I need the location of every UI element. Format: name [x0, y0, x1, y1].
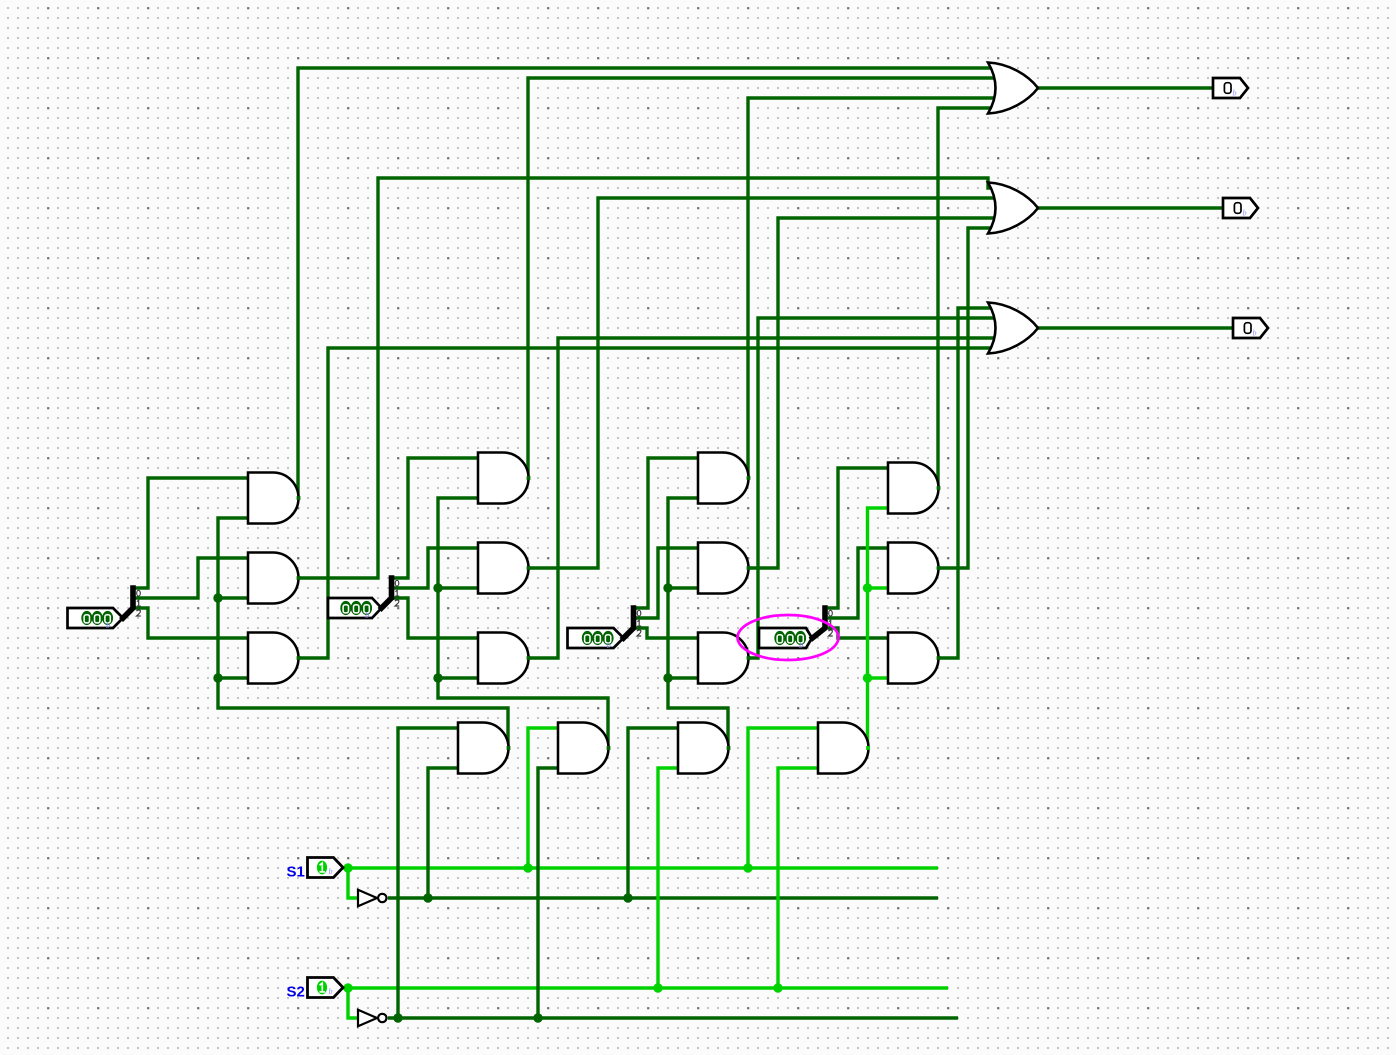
not gate NOT2 (S2') — [358, 1010, 377, 1026]
port nub C3 output — [747, 656, 751, 660]
junction enable1-A3 — [213, 673, 222, 682]
wire splitter1 bit2 to A3 top — [133, 608, 248, 638]
wire OR3 output — [1038, 326, 1233, 329]
wire splitter1 bit0 to A1 top — [133, 478, 248, 588]
and gate D1 — [888, 463, 939, 514]
splitter SP3 — [624, 608, 634, 638]
not gate NOT1 (S1') — [358, 890, 377, 906]
junction enable3-C2 — [663, 583, 672, 592]
or gate OR1 (bit0) — [988, 63, 1038, 114]
and gate D2 — [888, 543, 939, 594]
wire OR1 output — [1038, 86, 1213, 89]
input pin S1 — [308, 858, 344, 878]
wire enable1 stub to A3 bottom — [218, 676, 248, 679]
port nub E3 output — [727, 746, 731, 750]
wire net B2-out to OR2 in2 — [528, 198, 994, 568]
junction enable4-D3 — [863, 673, 872, 682]
and gate C1 — [698, 453, 749, 504]
port nub A1 output — [297, 496, 301, 500]
port nub D1 output — [937, 486, 941, 490]
and gate A1 — [248, 473, 299, 524]
wire net C2-out to OR2 in3 — [748, 218, 994, 568]
port nub B1 output — [527, 476, 531, 480]
junction S1-pin — [343, 863, 352, 872]
input pin I1 value 000 — [328, 598, 382, 618]
wire net E3-out enable column3 — [668, 498, 728, 748]
wire S2 up to E3 bottom — [658, 768, 678, 988]
wire enable1 stub to A2 bottom — [218, 596, 248, 599]
junction enable1-A2 — [213, 593, 222, 602]
wire net A1-out to OR1 in1 — [298, 68, 994, 498]
wire S1 up to E4 top — [748, 728, 818, 868]
wire S1 up to E2 top — [528, 728, 558, 868]
wire net S1-not line — [388, 896, 938, 899]
junction enable2-B3 — [433, 673, 442, 682]
svg-text:S1: S1 — [287, 864, 305, 881]
wire S2 up to E4 bottom — [778, 768, 818, 988]
port nub D3 output — [937, 656, 941, 660]
junction S2-E3 — [653, 983, 662, 992]
junction enable2-B2 — [433, 583, 442, 592]
wire splitter3 bit0 to C1 top — [634, 458, 699, 608]
or gate OR3 (bit2) — [988, 303, 1038, 354]
and gate A3 — [248, 633, 299, 684]
wire enable4 stub to D2 bottom — [868, 586, 889, 589]
svg-text:S2: S2 — [287, 984, 305, 1001]
wire net C3-out to OR3 in2 — [748, 318, 994, 658]
wire enable4 stub to D3 bottom — [868, 676, 889, 679]
output pin O0 — [1213, 78, 1248, 98]
wire net B3-out to OR3 in3 — [528, 338, 994, 658]
wire enable2 stub to B2 bottom — [438, 586, 478, 589]
wire splitter2 bit2 to B3 top — [392, 598, 479, 638]
wire splitter1 bit1 to A2 top — [133, 558, 248, 598]
wire splitter2 bit0 to B1 top — [392, 458, 479, 578]
and gate E2 (S1 S2') — [558, 723, 609, 774]
port nub C2 output — [747, 566, 751, 570]
wire net E4-out enable column4 — [868, 508, 889, 748]
wire net A2-out to OR2 in1 — [298, 178, 994, 578]
annotation magenta ellipse around splitter SP4 — [738, 615, 839, 660]
svg-text:b: b — [607, 640, 611, 650]
wire S1-not up to E3 top — [628, 728, 678, 898]
wire splitter3 bit1 to C2 top — [634, 548, 699, 618]
splitter SP1 — [123, 588, 133, 618]
and gate B1 — [478, 453, 529, 504]
svg-text:b: b — [1233, 89, 1237, 98]
wire enable2 stub to B3 bottom — [438, 676, 478, 679]
and gate E1 (S2'S1') — [458, 723, 509, 774]
port nub E2 output — [607, 746, 611, 750]
wire net D3-out to OR3 in1 — [938, 308, 994, 658]
wire splitter3 bit2 to C3 top — [634, 628, 699, 638]
junction S2-E4 — [773, 983, 782, 992]
wire net D1-out to OR1 in4 — [938, 108, 994, 488]
output pin O2 — [1233, 318, 1268, 338]
and gate C3 — [698, 633, 749, 684]
wire net E2-out enable column2 — [438, 498, 608, 748]
and gate E4 (S1 S2) — [818, 723, 869, 774]
svg-text:b: b — [106, 620, 110, 630]
wire splitter4 bit0 to D1 top — [828, 468, 888, 608]
junction enable3-C3 — [663, 673, 672, 682]
port nub A2 output — [297, 576, 301, 580]
output pin O1 — [1223, 198, 1258, 218]
wire splitter4 bit2 to D3 top — [828, 628, 888, 638]
wire net S1 line — [342, 866, 938, 869]
junction enable4-D2 — [863, 583, 872, 592]
wire net D2-out to OR2 in4 — [938, 228, 994, 568]
and gate C2 — [698, 543, 749, 594]
splitter SP4 — [813, 608, 826, 638]
and gate D3 — [888, 633, 939, 684]
and gate B3 — [478, 633, 529, 684]
wire enable3 stub to C3 bottom — [668, 676, 698, 679]
port nub D2 output — [937, 566, 941, 570]
and gate E3 (S1' S2) — [678, 723, 729, 774]
wire splitter2 bit1 to B2 top — [392, 548, 479, 588]
port nub C1 output — [747, 476, 751, 480]
input pin I2 value 000 — [568, 628, 624, 648]
wire net B1-out to OR1 in2 — [528, 78, 994, 478]
port nub E1 output — [507, 746, 511, 750]
junction S1-E2 — [523, 863, 532, 872]
wire S1 drop to NOT1 — [348, 868, 358, 898]
port nub E4 output — [866, 746, 870, 750]
or gate OR2 (bit1) — [988, 183, 1038, 234]
input pin I0 value 000 — [68, 608, 124, 628]
wire splitter4 bit1 to D2 top — [828, 548, 888, 618]
svg-text:b: b — [329, 867, 333, 876]
junction S2not-E2 — [533, 1013, 542, 1022]
wire net A3-out to OR3 in4 — [298, 348, 994, 658]
junction S1not-E1 — [423, 893, 432, 902]
junction S1not-E3 — [623, 893, 632, 902]
wire net E1-out enable column1 — [218, 518, 508, 748]
wire S2-not up to E2 bottom — [538, 768, 558, 1018]
wire S2-not up to E1 top — [398, 728, 458, 1018]
wire OR2 output — [1038, 206, 1223, 209]
junction S2-pin — [343, 983, 352, 992]
port nub B2 output — [527, 566, 531, 570]
junction S1-E4 — [743, 863, 752, 872]
wire net S2-not line — [388, 1016, 958, 1019]
port nub A3 output — [297, 656, 301, 660]
input pin S2 — [308, 978, 344, 998]
splitter SP2 — [382, 578, 392, 608]
junction S2not-E1 — [393, 1013, 402, 1022]
port nub B3 output — [527, 656, 531, 660]
wire S1-not up to E1 bottom — [428, 768, 458, 898]
and gate A2 — [248, 553, 299, 604]
svg-text:b: b — [1253, 329, 1257, 338]
wire net C1-out to OR1 in3 — [748, 98, 994, 478]
svg-text:b: b — [329, 987, 333, 996]
svg-text:b: b — [799, 640, 803, 650]
and gate B2 — [478, 543, 529, 594]
wire enable3 stub to C2 bottom — [668, 586, 698, 589]
wire net S2 line — [342, 986, 948, 989]
svg-text:b: b — [1243, 209, 1247, 218]
wire S2 drop to NOT2 — [348, 988, 358, 1018]
input pin I3 value 000 — [759, 628, 812, 648]
svg-text:b: b — [365, 610, 369, 620]
